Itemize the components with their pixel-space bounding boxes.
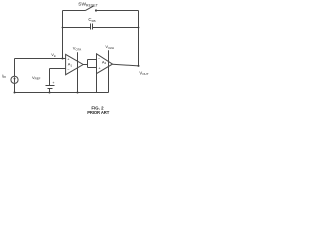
node dot rail-A1	[77, 92, 79, 94]
svg-text:VOTA: VOTA	[73, 46, 81, 52]
wire V_in horizontal	[15, 58, 66, 60]
svg-text:CFB: CFB	[88, 17, 95, 23]
node dot cap-left	[62, 27, 64, 29]
wire A2 output	[113, 64, 139, 66]
op-amp A1 triangle	[66, 54, 84, 74]
svg-text:A2: A2	[102, 60, 107, 66]
svg-text:Iin: Iin	[2, 73, 6, 79]
svg-text:+: +	[98, 67, 101, 71]
switch SW_RESET right contact dot	[95, 9, 97, 11]
wire A1 noninv input	[50, 68, 66, 70]
wire A1 output stub	[83, 64, 87, 66]
node dot cap-right	[138, 27, 140, 29]
wire vertical through A2	[108, 50, 110, 92]
svg-text:PRIOR ART: PRIOR ART	[87, 110, 110, 115]
wire top feedback left segment	[63, 10, 86, 12]
wire current source top lead	[14, 59, 16, 77]
capacitor C_FB plates	[91, 24, 93, 30]
wire capacitor row left	[63, 27, 91, 29]
node V_OUT dot	[138, 65, 140, 67]
svg-text:−: −	[98, 57, 101, 61]
wire left feedback vertical	[62, 11, 64, 59]
op-amp A2 triangle	[97, 54, 113, 74]
switch SW_RESET arm	[85, 6, 94, 11]
svg-text:−: −	[67, 67, 70, 71]
wire A2 corner drop	[96, 74, 98, 93]
wire V_REF battery top lead	[49, 69, 51, 86]
wire ground rail	[15, 92, 109, 94]
wire capacitor row right	[93, 27, 139, 29]
svg-text:A1: A1	[68, 62, 73, 68]
node V_in dot	[62, 58, 64, 60]
svg-text:VREF: VREF	[32, 75, 41, 81]
svg-text:VOUT: VOUT	[139, 70, 148, 76]
wire current source bottom lead	[14, 83, 16, 92]
current source I_in circle	[11, 76, 18, 83]
svg-text:Vin: Vin	[51, 52, 56, 58]
node dot rail-battery	[49, 92, 51, 94]
current source arrow	[14, 78, 16, 83]
wire splitter bar	[87, 60, 89, 68]
svg-text:SWRESET: SWRESET	[78, 2, 98, 8]
wire right feedback vertical	[138, 11, 140, 66]
wire A2 bottom input	[88, 67, 97, 69]
wire A2 top input	[88, 59, 97, 61]
wire battery bottom lead	[49, 89, 51, 93]
battery V_REF short plate	[48, 88, 53, 90]
node dot rail-left	[14, 92, 16, 94]
wire top feedback right segment	[96, 10, 139, 12]
svg-text:VO2H: VO2H	[105, 44, 114, 50]
wire V_OTA vertical through A1	[77, 52, 79, 92]
battery V_REF long plate	[46, 85, 55, 87]
svg-text:+: +	[52, 81, 54, 85]
